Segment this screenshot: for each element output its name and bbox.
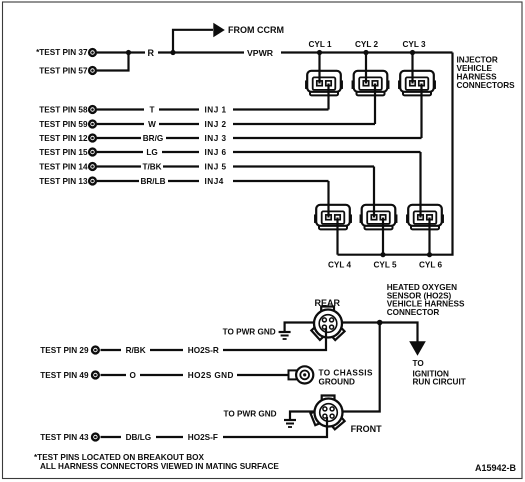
junction HO2S bus bbox=[377, 320, 383, 326]
wire row INJ2 bbox=[97, 123, 375, 125]
svg-text:INJ 2: INJ 2 bbox=[205, 120, 227, 129]
svg-text:VPWR: VPWR bbox=[247, 48, 274, 58]
injector connector CYL2 bbox=[352, 71, 388, 96]
wire connector 6 drop to bottom bus bbox=[428, 218, 430, 255]
svg-text:TEST PIN 15: TEST PIN 15 bbox=[39, 148, 88, 157]
junction bottom bus CYL6 bbox=[427, 252, 432, 257]
test point TP49 bbox=[40, 371, 99, 380]
wire INJ3 from connector 3 bbox=[420, 84, 422, 139]
svg-text:O: O bbox=[130, 371, 137, 380]
label INJECTOR VEHICLE HARNESS CONNECTORS bbox=[457, 56, 516, 91]
wire INJ1 from connector 1 bbox=[327, 84, 329, 110]
svg-text:ALL HARNESS CONNECTORS VIEWED: ALL HARNESS CONNECTORS VIEWED IN MATING … bbox=[40, 462, 279, 471]
ground symbol front PWR GND bbox=[284, 420, 296, 427]
svg-text:INJ 1: INJ 1 bbox=[205, 106, 227, 115]
wire INJ4 drop to connector 4 bbox=[327, 181, 329, 218]
svg-text:INJ 3: INJ 3 bbox=[205, 134, 227, 143]
svg-text:CYL 6: CYL 6 bbox=[419, 261, 443, 270]
wire row HO2S-R label gaps bbox=[121, 344, 223, 356]
svg-text:LG: LG bbox=[146, 148, 157, 157]
wire front sensor pin to HO2S-F row bbox=[101, 417, 328, 437]
svg-text:TEST PIN 29: TEST PIN 29 bbox=[40, 346, 89, 355]
svg-text:TEST PIN 43: TEST PIN 43 bbox=[40, 433, 89, 442]
wire VPWR bus (test pin 37 to right bus elbow) bbox=[97, 51, 453, 53]
svg-text:TO: TO bbox=[413, 359, 425, 368]
svg-text:TEST PIN 49: TEST PIN 49 bbox=[40, 371, 89, 380]
svg-text:TO CHASSIS: TO CHASSIS bbox=[319, 369, 373, 378]
injector connector CYL1 bbox=[306, 71, 342, 96]
wire row INJ6 bbox=[97, 151, 421, 153]
test point TP15 bbox=[39, 148, 96, 157]
svg-text:CONNECTORS: CONNECTORS bbox=[457, 81, 516, 90]
wire INJ2 from connector 2 bbox=[374, 84, 376, 125]
svg-text:INJ4: INJ4 bbox=[205, 177, 224, 186]
junction CYL2 tap bbox=[363, 50, 368, 55]
svg-text:CYL 2: CYL 2 bbox=[355, 40, 379, 49]
wire row INJ4 bbox=[97, 180, 329, 182]
svg-text:BR/G: BR/G bbox=[143, 134, 163, 143]
test point TP57 bbox=[39, 66, 96, 75]
junction TP57/VPWR bbox=[126, 50, 131, 55]
svg-text:T/BK: T/BK bbox=[142, 163, 161, 172]
svg-text:TEST PIN 57: TEST PIN 57 bbox=[39, 66, 88, 75]
svg-text:*TEST PINS LOCATED ON BREAKOUT: *TEST PINS LOCATED ON BREAKOUT BOX bbox=[34, 453, 205, 462]
test point TP59 bbox=[39, 120, 96, 129]
svg-text:FROM CCRM: FROM CCRM bbox=[228, 25, 284, 35]
svg-text:DB/LG: DB/LG bbox=[126, 433, 151, 442]
junction CYL1 tap bbox=[317, 50, 322, 55]
svg-text:GROUND: GROUND bbox=[319, 378, 355, 387]
svg-text:FRONT: FRONT bbox=[351, 424, 382, 434]
test point TP12 bbox=[39, 134, 96, 143]
svg-text:CYL 4: CYL 4 bbox=[328, 261, 352, 270]
svg-text:CYL 1: CYL 1 bbox=[308, 40, 332, 49]
svg-text:TO PWR GND: TO PWR GND bbox=[223, 328, 276, 337]
svg-text:R/BK: R/BK bbox=[126, 346, 146, 355]
svg-text:HO2S-F: HO2S-F bbox=[188, 433, 218, 442]
o2 sensor connector REAR bbox=[311, 307, 344, 341]
svg-text:TO PWR GND: TO PWR GND bbox=[224, 409, 277, 418]
svg-text:T: T bbox=[149, 106, 154, 115]
injector connector CYL3 bbox=[399, 71, 435, 96]
svg-text:RUN CIRCUIT: RUN CIRCUIT bbox=[413, 378, 466, 387]
svg-text:W: W bbox=[148, 120, 156, 129]
svg-text:TEST PIN 12: TEST PIN 12 bbox=[39, 134, 88, 143]
wire rear sensor right to junction and ignition elbow bbox=[341, 323, 418, 342]
wire CYL1 drop to connector 1 bbox=[318, 53, 320, 84]
junction CCRM riser bbox=[170, 50, 175, 55]
svg-text:HO2S GND: HO2S GND bbox=[188, 371, 234, 380]
injector connector CYL4 bbox=[315, 205, 351, 230]
wire rear sensor left to power ground bbox=[285, 323, 315, 332]
wire row HO2S GND bbox=[101, 374, 289, 376]
wire row INJ3 bbox=[97, 137, 422, 139]
svg-text:A15942-B: A15942-B bbox=[475, 463, 517, 473]
test point TP29 bbox=[40, 346, 99, 355]
test point TP13 bbox=[39, 177, 96, 186]
wire CYL2 drop to connector 2 bbox=[365, 53, 367, 84]
svg-text:TEST PIN 59: TEST PIN 59 bbox=[39, 120, 88, 129]
svg-text:TEST PIN 14: TEST PIN 14 bbox=[39, 163, 88, 172]
injector connector CYL5 bbox=[360, 205, 396, 230]
svg-text:TEST PIN 58: TEST PIN 58 bbox=[39, 106, 88, 115]
wire CYL3 drop to connector 3 bbox=[411, 53, 413, 84]
svg-text:CONNECTOR: CONNECTOR bbox=[387, 308, 440, 317]
o2 sensor connector FRONT bbox=[310, 396, 344, 430]
svg-text:INJ 5: INJ 5 bbox=[205, 163, 227, 172]
wire rear sensor pin to HO2S-R row bbox=[101, 328, 327, 350]
injector connector CYL6 bbox=[407, 205, 443, 230]
wire bottom bus and right riser to VPWR bbox=[338, 53, 453, 255]
wire test pin 57 jog up to VPWR bbox=[97, 53, 129, 71]
test point TP43 bbox=[40, 433, 99, 442]
junction bottom bus CYL5 bbox=[380, 252, 385, 257]
wire row INJ1 bbox=[97, 108, 329, 110]
ground symbol rear PWR GND bbox=[279, 332, 291, 339]
test point TP58 bbox=[39, 106, 96, 115]
svg-text:*TEST PIN 37: *TEST PIN 37 bbox=[36, 48, 88, 57]
wire row INJ5 bbox=[97, 165, 374, 167]
svg-text:CYL 5: CYL 5 bbox=[373, 261, 397, 270]
arrow TO IGNITION RUN CIRCUIT bbox=[409, 341, 426, 356]
wire riser to FROM CCRM arrow bbox=[173, 30, 213, 53]
arrow FROM CCRM bbox=[213, 23, 225, 37]
ring terminal chassis ground bbox=[289, 366, 314, 383]
svg-text:INJ 6: INJ 6 bbox=[205, 148, 227, 157]
label TO IGNITION RUN CIRCUIT bbox=[413, 359, 466, 387]
wire connector 5 drop to bottom bus bbox=[382, 218, 384, 255]
wire HO2S bus down to front sensor bbox=[342, 323, 380, 412]
svg-text:CYL 3: CYL 3 bbox=[402, 40, 426, 49]
wire INJ6 drop to connector 6 bbox=[419, 152, 421, 218]
svg-text:BR/LB: BR/LB bbox=[140, 177, 165, 186]
test point TP37 bbox=[36, 48, 96, 57]
wire INJ5 drop to connector 5 bbox=[373, 167, 375, 218]
test point TP14 bbox=[39, 163, 96, 172]
wire connector 4 drop to bottom bus bbox=[336, 218, 338, 255]
svg-text:HO2S-R: HO2S-R bbox=[188, 346, 219, 355]
svg-text:TEST PIN 13: TEST PIN 13 bbox=[39, 177, 88, 186]
label TO CHASSIS GROUND bbox=[319, 369, 373, 387]
junction CYL3 tap bbox=[410, 50, 415, 55]
label HEATED OXYGEN SENSOR (HO2S) VEHICLE HARNESS CONNECTOR bbox=[387, 283, 465, 317]
svg-text:R: R bbox=[148, 48, 155, 58]
wire row HO2S-F label gaps bbox=[121, 431, 223, 443]
wire front sensor left to power ground bbox=[290, 412, 316, 420]
